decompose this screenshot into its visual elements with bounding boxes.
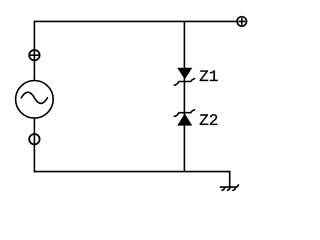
wire bottom horizontal [34,171,231,173]
wire left vertical upper [33,21,35,81]
ac source [16,81,54,119]
terminal plus left [29,50,39,60]
ground [220,185,238,190]
zener diode Z2 [174,110,194,126]
label Z2 [200,114,217,125]
zener diode Z1 [174,68,194,85]
wire top horizontal [34,20,237,22]
terminal circle left lower [29,134,39,144]
wire ground stub [229,171,231,187]
terminal plus output top right [237,17,246,26]
wire left vertical lower [33,118,35,172]
wire right branch vertical [183,21,185,171]
label Z1 [200,70,218,81]
